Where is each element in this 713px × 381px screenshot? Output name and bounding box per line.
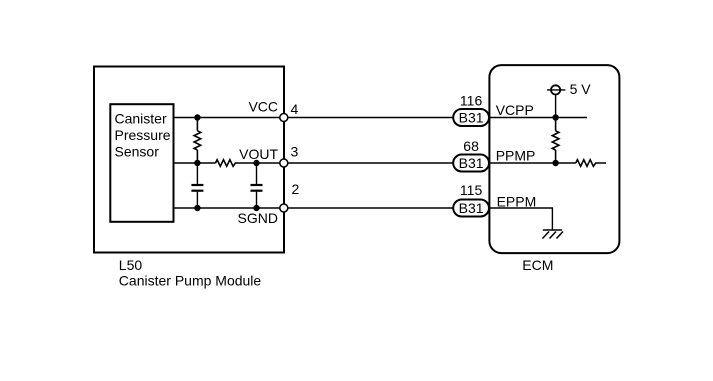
svg-text:2: 2 — [292, 181, 300, 197]
svg-text:Canister: Canister — [115, 111, 167, 127]
pin terminal 2 — [280, 204, 288, 212]
svg-text:5 V: 5 V — [570, 81, 592, 97]
resistor (ECM series in PPMP line) — [576, 160, 606, 167]
svg-text:115: 115 — [460, 182, 483, 198]
junction dots (ECM) — [552, 114, 558, 166]
canister pressure sensor box — [110, 104, 173, 222]
connector B31 pin 68 — [453, 138, 489, 172]
svg-text:ECM: ECM — [522, 257, 553, 273]
svg-text:B31: B31 — [459, 155, 484, 171]
resistor (series in VOUT line) — [216, 160, 238, 167]
svg-text:L50: L50 — [119, 257, 143, 273]
wire pin2 to connector B31/115 — [288, 207, 453, 209]
junction dots (module) — [194, 114, 260, 211]
pin terminal 3 — [280, 159, 288, 167]
capacitor (left filter cap) — [191, 163, 203, 208]
svg-text:116: 116 — [460, 92, 483, 108]
wire VOUT (sensor to pin 3) — [174, 162, 284, 164]
wire PPMP (inside ECM) — [489, 162, 575, 164]
wire SGND (sensor to pin 2) — [174, 207, 284, 209]
connector B31 pin 116 — [453, 92, 489, 126]
wire pin3 to connector B31/68 — [288, 162, 453, 164]
svg-text:Pressure: Pressure — [115, 127, 171, 143]
svg-text:68: 68 — [463, 138, 479, 154]
5V power terminal — [547, 81, 591, 97]
wire VCC (sensor to pin 4) — [174, 117, 284, 119]
wire pin4 to connector B31/116 — [288, 117, 453, 119]
svg-text:3: 3 — [291, 144, 299, 160]
ground (ECM internal) — [543, 230, 564, 239]
svg-text:VCC: VCC — [248, 99, 278, 115]
svg-text:4: 4 — [291, 101, 299, 117]
wire 5V to VCPP node — [555, 95, 557, 118]
connector B31 pin 115 — [453, 182, 489, 216]
svg-text:Canister Pump Module: Canister Pump Module — [119, 273, 262, 289]
module L50 outer box — [94, 67, 284, 253]
svg-text:Sensor: Sensor — [115, 144, 160, 160]
resistor (module pull-up between VCC and VOUT) — [194, 118, 201, 164]
sensor label "Canister Pressure Sensor" — [115, 111, 171, 160]
svg-text:PPMP: PPMP — [496, 148, 536, 164]
resistor (ECM pull-up between VCPP and PPMP) — [552, 118, 559, 164]
svg-text:SGND: SGND — [238, 210, 278, 226]
svg-text:EPPM: EPPM — [497, 194, 537, 210]
wire EPPM (inside ECM) — [489, 208, 552, 230]
svg-text:VCPP: VCPP — [496, 102, 534, 118]
pin terminal 4 — [280, 114, 288, 122]
svg-text:B31: B31 — [459, 110, 484, 126]
svg-text:VOUT: VOUT — [239, 146, 278, 162]
capacitor (right filter cap) — [251, 163, 263, 208]
ECM box — [489, 65, 619, 253]
svg-text:B31: B31 — [459, 200, 484, 216]
wire VCPP (inside ECM) — [489, 117, 587, 119]
